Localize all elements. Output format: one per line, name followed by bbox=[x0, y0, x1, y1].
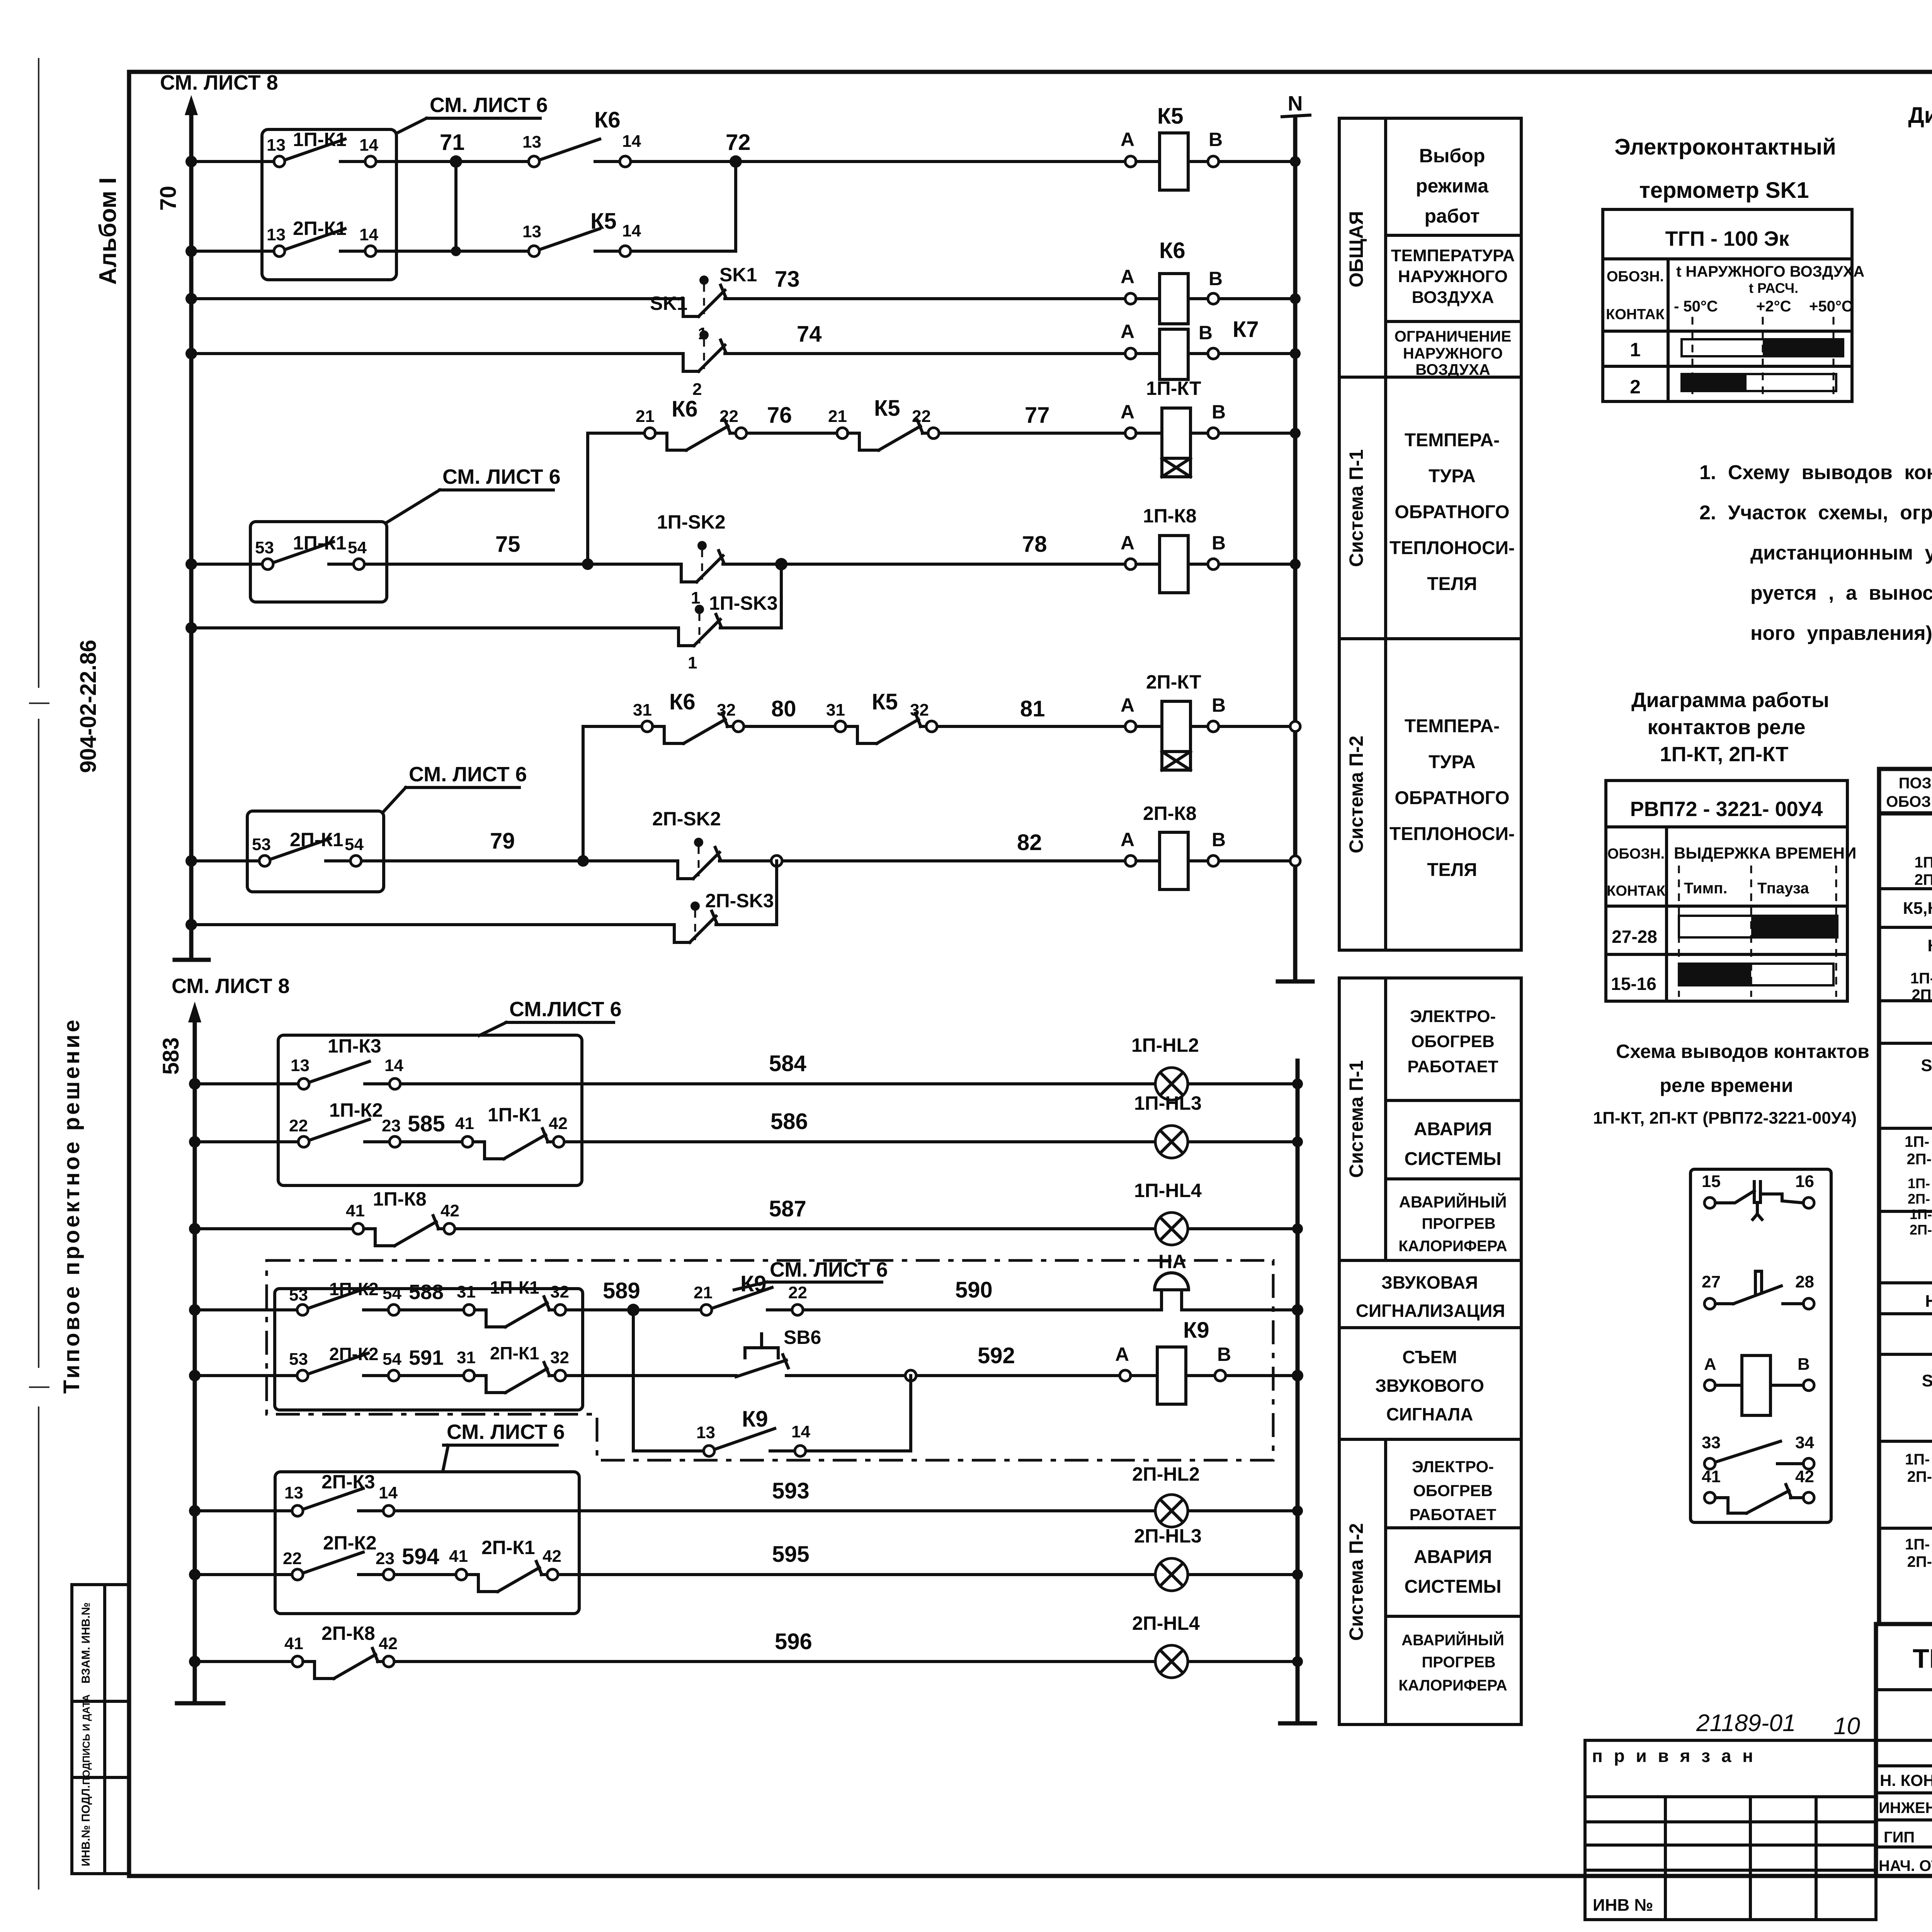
label СМ. ЛИСТ 8 (bottom of bus L1) bbox=[172, 975, 290, 998]
svg-text:К6: К6 bbox=[669, 689, 696, 714]
svg-text:79: 79 bbox=[490, 828, 515, 854]
svg-text:70: 70 bbox=[156, 186, 181, 211]
riser node72 to R2 bbox=[734, 162, 737, 251]
svg-text:23: 23 bbox=[376, 1549, 395, 1568]
привязан box bbox=[1585, 1740, 1876, 1920]
lamp 2П-HL3 bbox=[1134, 1525, 1202, 1591]
svg-text:А: А bbox=[1121, 266, 1134, 287]
wire row 76-77 (R5) bbox=[588, 428, 1301, 439]
svg-text:13: 13 bbox=[267, 225, 286, 244]
svg-text:К5: К5 bbox=[590, 209, 617, 234]
signature row НАЧ.ОТД. ПЛАТОНОВ bbox=[1879, 1856, 1932, 1875]
svg-text:КОНТАК: КОНТАК bbox=[1607, 883, 1665, 899]
terminal B of К7 bbox=[1199, 322, 1219, 359]
cell Электро-обогрев работает П-1 bbox=[1407, 1007, 1498, 1076]
svg-text:1П- HL3,: 1П- HL3, bbox=[1908, 1175, 1932, 1191]
svg-text:КАЛОРИФЕРА: КАЛОРИФЕРА bbox=[1398, 1238, 1507, 1255]
contact 1П-К1 31-32 bbox=[457, 1277, 569, 1327]
spec row: К9 ~220В bbox=[1927, 936, 1932, 959]
svg-text:2П-КТ: 2П-КТ bbox=[1146, 671, 1201, 693]
coil 1П-КТ (time relay) bbox=[1136, 378, 1208, 477]
function table bottom frame bbox=[1339, 978, 1521, 1725]
svg-text:2П-HL2: 2П-HL2 bbox=[1132, 1463, 1200, 1485]
svg-text:ОБОГРЕВ: ОБОГРЕВ bbox=[1413, 1481, 1493, 1500]
svg-text:ТЕМПЕРАТУРА: ТЕМПЕРАТУРА bbox=[1391, 246, 1515, 265]
svg-text:2П-К1: 2П-К1 bbox=[481, 1537, 535, 1558]
svg-text:ИНЖЕНЕР: ИНЖЕНЕР bbox=[1879, 1799, 1932, 1816]
svg-text:ТУРА: ТУРА bbox=[1429, 466, 1476, 486]
svg-text:ТЕЛЯ: ТЕЛЯ bbox=[1427, 574, 1477, 594]
svg-text:2П- HL2: 2П- HL2 bbox=[1907, 1151, 1932, 1168]
svg-text:41: 41 bbox=[1702, 1467, 1721, 1486]
bell HA bbox=[1155, 1251, 1189, 1310]
node N label bbox=[1288, 92, 1303, 115]
svg-text:2П-SK2: 2П-SK2 bbox=[652, 808, 721, 830]
contact 1П-К1 13-14 (row 72) bbox=[267, 129, 378, 167]
svg-text:ВЫДЕРЖКА ВРЕМЕНИ: ВЫДЕРЖКА ВРЕМЕНИ bbox=[1674, 844, 1856, 862]
svg-text:п р и в я з а н: п р и в я з а н bbox=[1592, 1746, 1756, 1766]
svg-text:ТЕМПЕРА-: ТЕМПЕРА- bbox=[1405, 716, 1500, 736]
svg-text:К6: К6 bbox=[594, 107, 621, 133]
contact К6 31-32 bbox=[633, 689, 744, 743]
rotated label Система П-2 (top table) bbox=[1345, 736, 1367, 854]
svg-text:589: 589 bbox=[603, 1278, 640, 1303]
svg-text:23: 23 bbox=[382, 1116, 401, 1135]
node 589 bbox=[603, 1278, 640, 1316]
thermometer contact 1П-SK2 bbox=[657, 511, 726, 607]
cell Температура обратного теплоносителя П-1 bbox=[1389, 430, 1515, 594]
svg-text:590: 590 bbox=[955, 1277, 993, 1303]
svg-text:К7: К7 bbox=[1233, 317, 1259, 342]
svg-text:СМ. ЛИСТ 6: СМ. ЛИСТ 6 bbox=[430, 94, 548, 117]
svg-text:ВЗАМ. ИНВ.№: ВЗАМ. ИНВ.№ bbox=[80, 1602, 92, 1684]
label СМ. ЛИСТ 8 (top) bbox=[160, 71, 278, 94]
contact К6 21-22 bbox=[636, 396, 747, 450]
svg-text:80: 80 bbox=[771, 696, 796, 721]
svg-text:2П- SК3: 2П- SК3 bbox=[1907, 1553, 1932, 1570]
svg-text:81: 81 bbox=[1020, 696, 1045, 721]
wire number 591 bbox=[409, 1346, 444, 1369]
coil 2П-К8 bbox=[1136, 803, 1208, 889]
svg-text:14: 14 bbox=[622, 221, 641, 240]
left stamp column boxes bbox=[72, 1585, 129, 1874]
svg-text:t РАСЧ.: t РАСЧ. bbox=[1749, 280, 1798, 296]
svg-text:СИГНАЛИЗАЦИЯ: СИГНАЛИЗАЦИЯ bbox=[1356, 1301, 1505, 1321]
svg-text:В: В bbox=[1209, 268, 1223, 289]
svg-text:ВОЗДУХА: ВОЗДУХА bbox=[1415, 361, 1490, 378]
svg-text:2П-SK3: 2П-SK3 bbox=[705, 890, 774, 912]
svg-text:27-28: 27-28 bbox=[1612, 927, 1657, 947]
contact 2П-К2 22-23 bbox=[283, 1532, 395, 1580]
svg-text:591: 591 bbox=[409, 1346, 444, 1369]
svg-text:ПОЗИЦИЯ: ПОЗИЦИЯ bbox=[1899, 775, 1932, 792]
box СМ.ЛИСТ6 around 2П-К1 53-54 bbox=[247, 811, 384, 892]
row 15-16 bar bbox=[1611, 964, 1833, 994]
svg-text:А: А bbox=[1121, 829, 1134, 850]
wire number 76 bbox=[767, 403, 792, 428]
svg-text:1П-КТ, 2П-КТ (РВП72-3221-00У4): 1П-КТ, 2П-КТ (РВП72-3221-00У4) bbox=[1593, 1109, 1857, 1128]
wire row 596 (S7) bbox=[189, 1656, 1303, 1667]
rotated label Система П-2 (bottom table) bbox=[1345, 1523, 1367, 1641]
svg-text:1: 1 bbox=[688, 653, 697, 672]
svg-text:ПОДПИСЬ И ДАТА: ПОДПИСЬ И ДАТА bbox=[80, 1694, 92, 1785]
svg-text:К5: К5 bbox=[872, 689, 898, 714]
svg-text:АВАРИЯ: АВАРИЯ bbox=[1414, 1547, 1492, 1567]
svg-text:82: 82 bbox=[1017, 830, 1042, 855]
spec table frame bbox=[1879, 769, 1932, 1624]
svg-text:2П-HL3: 2П-HL3 bbox=[1134, 1525, 1202, 1547]
contact К6 13-14 bbox=[522, 107, 641, 167]
wire row 591-592 (S4b) bbox=[189, 1370, 1303, 1381]
svg-text:2П-К1: 2П-К1 bbox=[290, 829, 344, 850]
svg-text:1П-КТ: 1П-КТ bbox=[1146, 378, 1201, 399]
svg-text:42: 42 bbox=[379, 1634, 398, 1653]
svg-text:15: 15 bbox=[1702, 1172, 1721, 1191]
terminal B of К5 bbox=[1208, 129, 1223, 167]
svg-text:1П-К8: 1П-К8 bbox=[373, 1188, 427, 1210]
riser R5 to R6 bbox=[586, 433, 589, 564]
cell Аварийный прогрев калорифера П-2 bbox=[1398, 1631, 1507, 1694]
contact 2П-К3 13-14 bbox=[284, 1471, 398, 1516]
svg-text:22: 22 bbox=[788, 1283, 807, 1302]
svg-text:2П-К2: 2П-К2 bbox=[323, 1532, 377, 1554]
leader СМ. ЛИСТ 6 (row 79 box) bbox=[384, 763, 527, 811]
rotated margin text: Альбом I bbox=[95, 177, 121, 285]
coil К5 bbox=[1136, 104, 1208, 190]
svg-text:1П- SК3,: 1П- SК3, bbox=[1905, 1536, 1932, 1553]
svg-text:Система П-1: Система П-1 bbox=[1345, 449, 1367, 567]
svg-text:РАБОТАЕТ: РАБОТАЕТ bbox=[1410, 1505, 1497, 1524]
svg-text:31: 31 bbox=[457, 1282, 476, 1301]
svg-text:Диаграмма работы: Диаграмма работы bbox=[1631, 689, 1829, 712]
svg-text:SК1: SК1 bbox=[1922, 1371, 1932, 1390]
svg-text:14: 14 bbox=[379, 1483, 398, 1502]
svg-text:+50°С: +50°С bbox=[1809, 298, 1853, 315]
wire number 585 bbox=[408, 1111, 445, 1136]
coil К7 bbox=[1136, 317, 1259, 379]
svg-text:СМ. ЛИСТ 6: СМ. ЛИСТ 6 bbox=[442, 465, 561, 488]
svg-text:ЭЛЕКТРО-: ЭЛЕКТРО- bbox=[1410, 1007, 1496, 1026]
svg-text:22: 22 bbox=[289, 1116, 308, 1135]
svg-text:34: 34 bbox=[1795, 1433, 1814, 1452]
svg-text:СМ. ЛИСТ 6: СМ. ЛИСТ 6 bbox=[770, 1258, 888, 1281]
svg-text:584: 584 bbox=[769, 1051, 806, 1076]
svg-text:Система П-1: Система П-1 bbox=[1345, 1060, 1367, 1178]
wire number 583 bbox=[158, 1037, 184, 1075]
svg-text:ТГП - 100 Эк: ТГП - 100 Эк bbox=[1665, 227, 1790, 250]
spec header texts bbox=[1886, 775, 1932, 810]
svg-text:71: 71 bbox=[440, 130, 465, 155]
doc number ТП 904-02-22.86 bbox=[1913, 1643, 1932, 1676]
wire row 594-595 (S6) bbox=[189, 1569, 1303, 1580]
svg-text:ОБЩАЯ: ОБЩАЯ bbox=[1345, 211, 1367, 287]
wire row 74 (R4) bbox=[185, 348, 1301, 359]
svg-text:А: А bbox=[1121, 129, 1134, 150]
wire number 75 bbox=[495, 532, 520, 557]
svg-text:2П-К8: 2П-К8 bbox=[321, 1622, 375, 1644]
lamp 1П-HL4 bbox=[1134, 1180, 1202, 1245]
svg-text:N: N bbox=[1288, 92, 1303, 115]
svg-text:595: 595 bbox=[772, 1542, 810, 1567]
svg-text:54: 54 bbox=[383, 1350, 401, 1369]
wire number 594 bbox=[402, 1544, 439, 1569]
svg-text:СИГНАЛА: СИГНАЛА bbox=[1386, 1404, 1473, 1424]
svg-text:ОБОГРЕВ: ОБОГРЕВ bbox=[1411, 1032, 1495, 1051]
svg-text:А: А bbox=[1115, 1344, 1129, 1365]
node after 2П-SK2 bbox=[771, 855, 782, 866]
contact 2П-К1 13-14 bbox=[267, 218, 378, 257]
svg-text:ПРОГРЕВ: ПРОГРЕВ bbox=[1422, 1215, 1496, 1232]
svg-text:РАБОТАЕТ: РАБОТАЕТ bbox=[1407, 1057, 1498, 1076]
svg-text:руется , а выносится на це: руется , а выносится на центральный щит … bbox=[1750, 582, 1932, 604]
svg-text:1П-SK3: 1П-SK3 bbox=[709, 592, 778, 614]
svg-text:ПРОГРЕВ: ПРОГРЕВ bbox=[1422, 1654, 1496, 1671]
svg-text:В: В bbox=[1212, 532, 1226, 554]
box СМ.ЛИСТ6 around 1П-К3/1П-К2/1П-К1 bbox=[278, 1035, 582, 1185]
svg-text:ЗВУКОВАЯ: ЗВУКОВАЯ bbox=[1381, 1272, 1478, 1293]
wire row 2П-SK3 branch (R8b) bbox=[185, 861, 777, 930]
svg-text:А: А bbox=[1704, 1355, 1716, 1374]
svg-text:42: 42 bbox=[543, 1547, 561, 1566]
contact К9 13-14 bbox=[696, 1406, 810, 1456]
thermometer contact 2П-SK2 bbox=[652, 808, 721, 879]
table ТГП-100Эк (SK1) bbox=[1603, 209, 1864, 401]
svg-text:2П-К8: 2П-К8 bbox=[1915, 871, 1932, 888]
spec row: 1П-К8 2П-К8 реле промежуточное bbox=[1915, 854, 1932, 888]
svg-text:К9: К9 bbox=[1183, 1318, 1209, 1343]
svg-text:НА: НА bbox=[1925, 1292, 1932, 1311]
svg-text:СМ. ЛИСТ 6: СМ. ЛИСТ 6 bbox=[409, 763, 527, 786]
svg-text:ТЕЛЯ: ТЕЛЯ bbox=[1427, 860, 1477, 880]
svg-text:593: 593 bbox=[772, 1478, 810, 1503]
svg-text:13: 13 bbox=[284, 1483, 303, 1502]
coil К9 bbox=[1131, 1318, 1215, 1404]
spec row: 1П-SK2 электроконтактный bbox=[1905, 1451, 1932, 1485]
svg-text:К9: К9 bbox=[742, 1406, 768, 1432]
svg-text:27: 27 bbox=[1702, 1272, 1721, 1291]
svg-text:В: В bbox=[1212, 829, 1226, 850]
svg-text:НАРУЖНОГО: НАРУЖНОГО bbox=[1398, 267, 1508, 286]
sheet edge thin line left bbox=[29, 58, 49, 1889]
contact 2П-К1 41-42 bbox=[449, 1537, 561, 1592]
svg-text:К6: К6 bbox=[1159, 238, 1185, 263]
svg-text:КОНТАК: КОНТАК bbox=[1606, 306, 1665, 323]
svg-text:586: 586 bbox=[770, 1109, 808, 1134]
svg-text:10: 10 bbox=[1833, 1713, 1860, 1740]
function table top frame bbox=[1339, 118, 1521, 950]
svg-text:77: 77 bbox=[1025, 403, 1050, 428]
pushbutton SВ6 bbox=[736, 1327, 821, 1377]
terminal B of 1П-КТ bbox=[1208, 401, 1226, 439]
svg-text:2П- HL3,: 2П- HL3, bbox=[1908, 1191, 1932, 1207]
dash-dot remote-control boundary box bbox=[267, 1260, 1273, 1460]
svg-text:53: 53 bbox=[289, 1350, 308, 1369]
svg-text:АВАРИЙНЫЙ: АВАРИЙНЫЙ bbox=[1401, 1631, 1504, 1649]
svg-text:дистанционным управлением: дистанционным управлением на щите автома… bbox=[1750, 542, 1932, 564]
svg-text:НАЧ. ОТД.: НАЧ. ОТД. bbox=[1879, 1857, 1932, 1874]
terminal A of 2П-К8 bbox=[1121, 829, 1136, 866]
svg-text:1П-К1: 1П-К1 bbox=[488, 1104, 541, 1126]
terminal B of 2П-К8 bbox=[1208, 829, 1226, 866]
cell Авария системы П-2 bbox=[1405, 1547, 1502, 1597]
thermometer contact 2П-SK3 bbox=[674, 890, 774, 942]
wire number 78 bbox=[1022, 532, 1047, 557]
contact 2П-К2 53-54 bbox=[289, 1344, 401, 1381]
note 1 bbox=[1699, 461, 1932, 484]
svg-text:587: 587 bbox=[769, 1196, 806, 1221]
row 2 bar (SK1) bbox=[1630, 374, 1836, 398]
svg-text:ИНВ №: ИНВ № bbox=[1593, 1896, 1653, 1915]
svg-text:РВП72 - 3221- 00У4: РВП72 - 3221- 00У4 bbox=[1630, 798, 1823, 821]
svg-text:1П-К3: 1П-К3 bbox=[328, 1035, 381, 1057]
spec row: 1П-КТ 2П-КТ реле времени bbox=[1910, 970, 1932, 1003]
svg-text:31: 31 bbox=[633, 701, 652, 719]
wire row 1П-SK3 branch (R6b) bbox=[185, 564, 781, 634]
svg-text:13: 13 bbox=[522, 133, 541, 151]
svg-text:1П-К8: 1П-К8 bbox=[1143, 505, 1197, 527]
rotated margin text: 904-02-22.86 bbox=[76, 639, 101, 773]
svg-text:13: 13 bbox=[267, 136, 286, 155]
svg-text:ТЕПЛОНОСИ-: ТЕПЛОНОСИ- bbox=[1389, 538, 1515, 558]
terminal B of 1П-К8 bbox=[1208, 532, 1226, 570]
svg-text:Типовое проектное решение: Типовое проектное решение bbox=[59, 1017, 84, 1394]
table РВП72-3221-00У4 bbox=[1606, 781, 1856, 1001]
svg-text:Н. КОНТР.: Н. КОНТР. bbox=[1880, 1771, 1932, 1789]
svg-text:реле времени: реле времени bbox=[1660, 1075, 1793, 1096]
wire number 584 bbox=[769, 1051, 806, 1076]
svg-text:31: 31 bbox=[457, 1348, 476, 1367]
svg-text:В: В bbox=[1209, 129, 1223, 150]
svg-text:Схема выводов контактов: Схема выводов контактов bbox=[1616, 1041, 1869, 1062]
box СМ.ЛИСТ6 around 1П-К1 53-54 bbox=[250, 522, 387, 602]
lamp 2П-HL2 bbox=[1132, 1463, 1200, 1527]
svg-text:АВАРИЙНЫЙ: АВАРИЙНЫЙ bbox=[1399, 1192, 1507, 1211]
svg-text:1П-К1: 1П-К1 bbox=[293, 129, 347, 150]
rotated label Система П-1 (top table) bbox=[1345, 449, 1367, 567]
contact К5 13-14 bbox=[522, 209, 641, 257]
svg-text:Выбор: Выбор bbox=[1419, 145, 1485, 167]
wire number 588 bbox=[409, 1281, 444, 1304]
svg-text:13: 13 bbox=[522, 222, 541, 241]
wire number 596 bbox=[775, 1629, 812, 1654]
svg-text:1: 1 bbox=[691, 588, 700, 607]
привязан label ИНВ № bbox=[1593, 1896, 1653, 1915]
svg-text:73: 73 bbox=[775, 267, 800, 292]
svg-text:2. Участок схемы, ограниченн: 2. Участок схемы, ограниченный штрих-пун… bbox=[1699, 502, 1932, 524]
svg-text:14: 14 bbox=[359, 225, 378, 244]
spec row: К5,К6,К7 bbox=[1903, 898, 1932, 920]
svg-text:СМ. ЛИСТ 8: СМ. ЛИСТ 8 bbox=[172, 975, 290, 998]
svg-text:1П-SK2: 1П-SK2 bbox=[657, 511, 726, 533]
heading Диаграммы работы контактов bbox=[1908, 103, 1932, 128]
coil 1П-К8 bbox=[1136, 505, 1208, 593]
svg-text:32: 32 bbox=[550, 1282, 569, 1301]
wire number 595 bbox=[772, 1542, 810, 1567]
dashed gridlines (РВП) bbox=[1679, 866, 1836, 997]
svg-text:22: 22 bbox=[912, 407, 931, 426]
svg-text:ОБРАТНОГО: ОБРАТНОГО bbox=[1395, 788, 1509, 808]
svg-text:592: 592 bbox=[978, 1343, 1015, 1368]
svg-text:31: 31 bbox=[826, 701, 845, 719]
svg-text:ного управления).: ного управления). bbox=[1750, 622, 1932, 645]
svg-text:72: 72 bbox=[726, 130, 751, 155]
svg-text:СМ. ЛИСТ 8: СМ. ЛИСТ 8 bbox=[160, 71, 278, 94]
svg-text:Система П-2: Система П-2 bbox=[1345, 1523, 1367, 1641]
svg-text:32: 32 bbox=[717, 701, 736, 719]
svg-text:ОБОЗН.: ОБОЗН. bbox=[1607, 846, 1665, 862]
lamp 2П-HL4 bbox=[1132, 1612, 1200, 1678]
coil К6 bbox=[1136, 238, 1208, 324]
dashed temperature gridlines (SK1) bbox=[1692, 317, 1833, 399]
wire row 79-82 (R8) bbox=[185, 855, 1300, 867]
svg-text:2: 2 bbox=[1630, 376, 1641, 398]
svg-text:режима: режима bbox=[1416, 175, 1489, 197]
svg-text:К9: К9 bbox=[1927, 936, 1932, 955]
svg-text:- 50°С: - 50°С bbox=[1674, 298, 1718, 315]
svg-text:1П-К2: 1П-К2 bbox=[329, 1099, 383, 1121]
terminal A of К9 bbox=[1115, 1344, 1131, 1381]
svg-text:А: А bbox=[1121, 321, 1134, 342]
node after 1П-SK2 bbox=[775, 558, 787, 570]
heading Диаграмма работы контактов реле 1П-КТ, 2П-КТ bbox=[1631, 689, 1829, 766]
svg-text:SK1: SK1 bbox=[650, 293, 687, 314]
svg-text:21: 21 bbox=[828, 407, 847, 426]
svg-text:21189-01: 21189-01 bbox=[1696, 1710, 1796, 1736]
svg-text:53: 53 bbox=[255, 538, 274, 557]
svg-text:33: 33 bbox=[1702, 1433, 1721, 1452]
leader СМ. ЛИСТ 6 (inner box) bbox=[734, 1258, 888, 1290]
svg-text:СИСТЕМЫ: СИСТЕМЫ bbox=[1405, 1577, 1502, 1597]
contact 1П-К2 53-54 bbox=[289, 1279, 401, 1315]
svg-text:596: 596 bbox=[775, 1629, 812, 1654]
svg-text:53: 53 bbox=[252, 835, 271, 854]
svg-text:АВАРИЯ: АВАРИЯ bbox=[1414, 1119, 1492, 1139]
heading Схема выводов контактов реле времени bbox=[1593, 1041, 1869, 1128]
svg-text:78: 78 bbox=[1022, 532, 1047, 557]
pinout box bbox=[1690, 1169, 1831, 1522]
svg-text:74: 74 bbox=[797, 321, 822, 347]
wire row 593 (S5) bbox=[189, 1505, 1303, 1517]
leader СМ. ЛИСТ 6 (top box) bbox=[396, 94, 548, 133]
svg-text:13: 13 bbox=[291, 1056, 310, 1075]
node 71 bbox=[440, 130, 465, 168]
note 2 line 1 bbox=[1699, 502, 1932, 524]
signature row Н.КОНТР. ГОРСКАЯ bbox=[1880, 1771, 1932, 1790]
svg-text:термометр SK1: термометр SK1 bbox=[1639, 178, 1809, 203]
thermometer contact SK1 (contact 1) bbox=[683, 264, 757, 343]
svg-text:1П-HL4: 1П-HL4 bbox=[1134, 1180, 1202, 1201]
terminal B of К6 bbox=[1208, 268, 1223, 304]
svg-text:ТЕПЛОНОСИ-: ТЕПЛОНОСИ- bbox=[1389, 824, 1515, 844]
svg-text:594: 594 bbox=[402, 1544, 439, 1569]
svg-text:ЭЛЕКТРО-: ЭЛЕКТРО- bbox=[1412, 1458, 1494, 1476]
svg-text:14: 14 bbox=[791, 1422, 810, 1441]
svg-text:НА: НА bbox=[1158, 1251, 1186, 1272]
terminal A of К6 bbox=[1121, 266, 1136, 304]
svg-text:28: 28 bbox=[1795, 1272, 1814, 1291]
terminal A of 1П-К8 bbox=[1121, 532, 1136, 570]
coil 2П-КТ (time relay) bbox=[1136, 671, 1208, 770]
wire number 587 bbox=[769, 1196, 806, 1221]
svg-text:2П- HL4: 2П- HL4 bbox=[1910, 1222, 1932, 1238]
contact К5 31-32 bbox=[826, 689, 937, 743]
box СМ.ЛИСТ6 around 1П-К1/2П-К1 bbox=[262, 129, 396, 280]
stamp label ВЗАМ. ИНВ. № bbox=[80, 1602, 92, 1684]
svg-text:ТУРА: ТУРА bbox=[1429, 752, 1476, 772]
spec row lines bbox=[1879, 850, 1932, 1573]
svg-text:21: 21 bbox=[636, 407, 655, 426]
rotated margin text: Типовое проектное решение bbox=[59, 1017, 84, 1394]
